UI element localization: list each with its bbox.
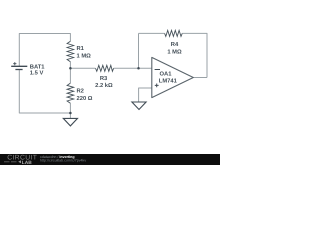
svg-text:1.5 V: 1.5 V (30, 71, 44, 77)
svg-text:http://circuitlab.com/c/7pv4kv: http://circuitlab.com/c/7pv4kv (40, 159, 86, 163)
wire battery top to top rail to R1 top (19, 34, 70, 67)
wire R1 bottom to node A (69, 62, 71, 69)
svg-text:1 MΩ: 1 MΩ (77, 52, 92, 59)
ground GND1 (under R2) (63, 118, 77, 126)
svg-text:R2: R2 (77, 88, 84, 95)
footer bar (0, 154, 220, 165)
op-amp plus symbol (155, 84, 159, 88)
svg-text:OA1: OA1 (160, 71, 173, 78)
ground GND2 (op-amp + input) (132, 102, 146, 110)
resistor R1 (67, 41, 74, 62)
svg-text:LM741: LM741 (159, 78, 178, 84)
CircuitLab logo dashes (4, 161, 17, 163)
svg-text:R4: R4 (171, 42, 179, 48)
svg-text:220 Ω: 220 Ω (77, 95, 93, 102)
resistor R4 (165, 30, 183, 36)
wire battery bottom to bottom rail (19, 70, 70, 113)
wire R2 bottom stub to bottom rail (69, 103, 71, 113)
wire R2 top stub (69, 68, 71, 83)
wire node A to R3 left (70, 67, 95, 69)
wire feedback top rail left of R4 (139, 32, 165, 34)
battery plus sign (13, 62, 16, 65)
wire feedback top rail right of R4 down to output (182, 33, 207, 77)
svg-text:R1: R1 (77, 46, 85, 52)
svg-text:R3: R3 (100, 75, 108, 82)
node C junction dot (bottom rail / R2 / ground) (69, 112, 72, 115)
wire R3 right to op-amp inverting input (114, 67, 152, 69)
op-amp OA1 triangle (152, 57, 194, 97)
node A junction dot (69, 67, 72, 70)
svg-text:2.2 kΩ: 2.2 kΩ (95, 82, 113, 89)
CircuitLab logo arrow mark (18, 160, 21, 163)
wire bottom rail node to ground GND1 (69, 113, 71, 118)
wire op-amp noninverting input to ground GND2 (139, 88, 152, 102)
op-amp minus symbol (155, 69, 160, 71)
svg-text:BAT1: BAT1 (30, 64, 45, 70)
resistor R3 (96, 65, 114, 71)
svg-text:LAB: LAB (22, 160, 32, 165)
wire feedback vertical from node B up (138, 33, 140, 68)
svg-text:1 MΩ: 1 MΩ (167, 48, 182, 55)
wire op-amp output (193, 77, 207, 79)
resistor R2 (67, 83, 74, 103)
battery BAT1 plates (11, 65, 27, 67)
node B junction dot (feedback tap) (137, 67, 140, 70)
